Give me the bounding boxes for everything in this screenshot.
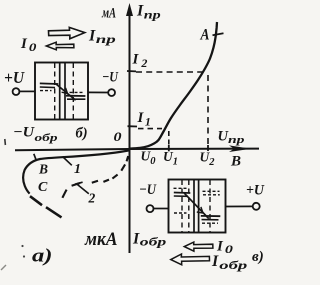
right band dashed — [70, 91, 85, 93]
left band dashed — [40, 90, 52, 92]
I1 tick — [128, 125, 138, 127]
right band line 2 — [67, 98, 85, 100]
curve 2 dash d — [103, 180, 109, 182]
left band line 1 — [174, 192, 191, 195]
U2 dashed line — [207, 75, 209, 145]
depletion dashed left — [54, 63, 56, 119]
depletion dashed far left — [181, 180, 183, 232]
svg-text:+U: +U — [4, 68, 25, 87]
big hollow arrow Ipr — [49, 27, 85, 38]
svg-text:−U: −U — [102, 70, 119, 86]
svg-text:в): в) — [252, 249, 264, 265]
callout arrow for 2 — [75, 182, 89, 194]
band diagonal — [56, 84, 76, 100]
left lead wire — [20, 90, 35, 92]
left lead wire — [154, 208, 169, 210]
right band line 2 — [202, 219, 219, 221]
horizontal voltage axis — [15, 145, 259, 152]
stray tick left edge — [4, 139, 7, 145]
depletion dashed right — [209, 180, 211, 232]
left band line 2 — [174, 195, 188, 197]
junction center line left — [59, 63, 61, 119]
small hollow arrow I0 bottom — [184, 242, 213, 251]
junction center line right — [64, 63, 66, 119]
svg-text:0: 0 — [114, 129, 123, 144]
stray colon specks — [21, 245, 23, 247]
point A tick — [213, 33, 224, 35]
junction center line left — [193, 180, 195, 232]
svg-text:а): а) — [32, 246, 53, 267]
stray mark bottom-left edge — [1, 265, 6, 270]
forward curve — [129, 22, 217, 149]
svg-text:C: C — [38, 180, 48, 195]
svg-text:мА: мА — [101, 6, 116, 22]
reverse branch solid curve 1 — [23, 150, 129, 193]
diagonal arrow barbs — [197, 207, 203, 213]
point B tick — [34, 154, 36, 160]
left terminal circle — [147, 205, 154, 212]
U1 tick — [168, 145, 170, 151]
svg-text:В: В — [230, 154, 241, 170]
depletion dashed right — [72, 63, 74, 119]
right lead wire — [226, 205, 253, 207]
curve 2 knee dash — [62, 190, 66, 198]
right band line 1 — [66, 95, 85, 97]
depletion dashed left — [188, 180, 190, 232]
junction center line right — [198, 180, 200, 232]
left band line 1 — [40, 82, 59, 85]
left band dashed top — [174, 187, 188, 189]
junction box — [169, 180, 226, 233]
U1 dashed line — [168, 131, 170, 145]
thermal breakdown dash 1 — [30, 196, 42, 205]
svg-text:б): б) — [76, 126, 88, 142]
junction box — [35, 63, 88, 120]
vertical current axis — [126, 3, 133, 253]
right lead wire — [88, 91, 108, 93]
right terminal circle — [253, 203, 260, 210]
svg-text:мкА: мкА — [84, 230, 117, 250]
diagonal arrow barbs — [62, 88, 68, 94]
right band line 1 — [201, 215, 221, 217]
right lower dashed — [202, 222, 218, 224]
right upper dashed 2 — [203, 194, 220, 196]
U2 tick — [207, 145, 209, 151]
big hollow arrow Iobr — [171, 254, 210, 265]
svg-text:+U: +U — [246, 183, 265, 199]
curve 2 dash a — [127, 156, 129, 161]
curve 2 dash f — [72, 183, 80, 186]
band diagonal — [184, 193, 209, 218]
right upper dashed 1 — [203, 190, 220, 192]
svg-text:A: A — [200, 27, 210, 44]
small hollow arrow I0 top — [46, 42, 74, 50]
left band line 2 — [40, 86, 55, 89]
svg-text:2: 2 — [88, 191, 96, 206]
curve 2 dash c — [112, 175, 117, 179]
left lower dashed — [174, 212, 187, 214]
svg-text:1: 1 — [74, 162, 81, 177]
callout line for 1 — [63, 157, 72, 166]
left terminal circle — [13, 88, 20, 95]
svg-text:−U: −U — [139, 182, 157, 198]
svg-text:B: B — [38, 162, 48, 177]
I1 dashed line — [138, 128, 162, 130]
curve 2 dash b — [121, 164, 125, 170]
I2 dashed line — [136, 71, 204, 73]
thermal breakdown dash 2 — [46, 207, 62, 217]
right terminal circle — [108, 89, 115, 96]
curve 2 dash e — [92, 181, 98, 183]
I2 tick — [127, 70, 136, 72]
